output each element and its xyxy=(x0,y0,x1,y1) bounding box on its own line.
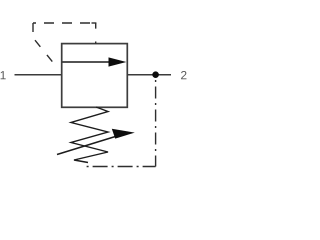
pilot line top corner stub xyxy=(92,22,97,24)
port 1 wire xyxy=(15,74,62,76)
pilot line vertical into box top xyxy=(95,23,97,44)
flow arrowhead xyxy=(109,57,127,66)
spring xyxy=(71,107,108,163)
junction node xyxy=(152,71,159,78)
pilot line left vertical xyxy=(32,23,34,34)
port 1 label xyxy=(1,71,6,79)
pilot line diagonal xyxy=(35,40,57,67)
port 2 label xyxy=(181,71,186,79)
valve body box xyxy=(62,44,128,108)
drain line horizontal dash-dot xyxy=(84,166,156,168)
port 2 wire xyxy=(127,74,171,76)
flow arrow shaft xyxy=(63,61,112,63)
drain line vertical dash-dot xyxy=(155,79,157,167)
adjustment arrowhead xyxy=(112,129,135,139)
pilot line top horizontal xyxy=(33,22,96,24)
adjustment arrow shaft xyxy=(57,136,117,155)
